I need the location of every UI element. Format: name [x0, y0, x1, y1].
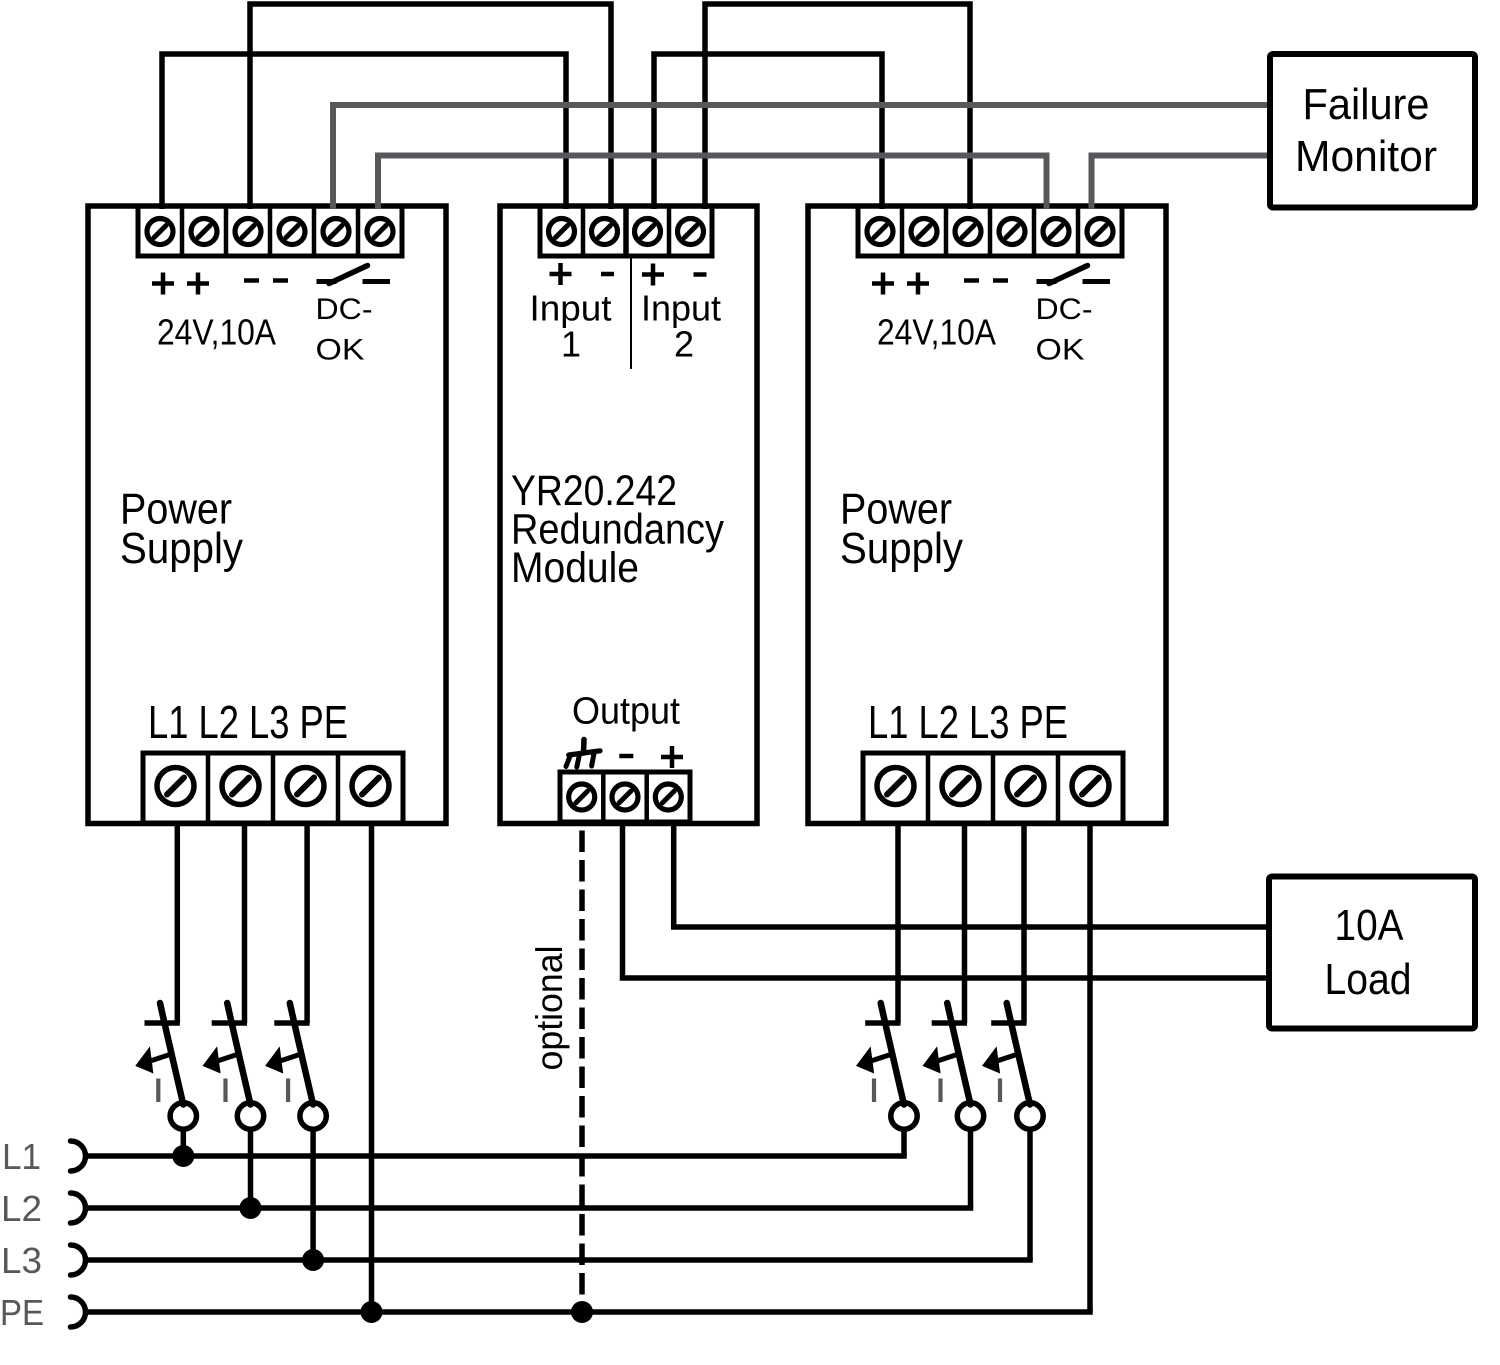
10A load label [1325, 901, 1412, 1004]
PS1 label + + [152, 273, 209, 295]
PS2 label - - [964, 278, 1008, 283]
U1 label output - + [619, 746, 683, 768]
PS1 top terminal screw 4 [279, 219, 305, 245]
PS1 bottom terminal screw 1 [157, 768, 194, 805]
U1 functional earth symbol [566, 740, 600, 768]
PS2 top terminal block [858, 206, 1122, 256]
wire PS1 L3 drop [304, 823, 310, 1023]
PS2 top terminal screw 3 [955, 219, 981, 245]
wire PS2 L2 drop [962, 823, 968, 1023]
PS2 top terminal screw 1 [867, 219, 893, 245]
svg-text:L1 L2 L3 PE: L1 L2 L3 PE [148, 696, 348, 748]
U1 output terminal screw 3 [655, 784, 681, 810]
PS1 PE junction dot [361, 1301, 383, 1323]
svg-text:L1: L1 [2, 1136, 41, 1177]
wire PS1- to U1 input1- [250, 4, 611, 209]
wire PS1 DC-OK to failure monitor [333, 105, 1267, 209]
PS2 top terminal screw 4 [999, 219, 1025, 245]
wire PS1 DC-OK to PS2 DC-OK [378, 156, 1047, 210]
PS1 top terminal block [138, 206, 402, 256]
L3 bus entry arc [71, 1245, 86, 1275]
circuit breaker Q1 (PS1 L1) junction dot [172, 1145, 194, 1167]
optional earth junction dot [571, 1301, 593, 1323]
wire PS2 L3 drop [1021, 823, 1027, 1023]
circuit breaker Q2 (PS1 L2) junction dot [240, 1197, 262, 1219]
wire PS2 PE drop [1087, 823, 1093, 1312]
U1 label input1 + - [550, 263, 615, 285]
circuit breaker Q5 (PS2 L2) [923, 1003, 984, 1208]
wire U1 input2- to PS2- [705, 4, 970, 209]
PS2 bottom terminal screw 1 [877, 768, 914, 805]
PS2 bottom terminal screw 3 [1007, 768, 1044, 805]
wire PS1 L1 drop [175, 823, 181, 1023]
PS2 label Power Supply [840, 485, 963, 574]
PE bus entry arc [71, 1297, 86, 1327]
PS1 top terminal screw 6 [367, 219, 393, 245]
circuit breaker Q3 (PS1 L3) junction dot [302, 1249, 324, 1271]
PS2 top terminal screw 6 [1087, 219, 1113, 245]
svg-text:24V,10A: 24V,10A [157, 312, 276, 353]
svg-text:optional: optional [529, 946, 570, 1071]
optional earth wire (dashed) [579, 831, 585, 1313]
PS2 bottom terminal screw 2 [942, 768, 979, 805]
wire PS2 L1 drop [895, 823, 901, 1023]
svg-text:Output: Output [572, 691, 680, 733]
U1 input divider line [630, 256, 632, 369]
PS2 top terminal screw 2 [911, 219, 937, 245]
wire U1 input2+ to PS2+ [654, 54, 882, 209]
redundancy module U1 box [500, 206, 757, 824]
circuit breaker Q3 (PS1 L3) [265, 1003, 326, 1260]
wire U1 output- to load [623, 822, 1267, 978]
wire PS2 DC-OK to failure monitor [1092, 156, 1268, 210]
PS2 top terminal screw 5 [1043, 219, 1069, 245]
PS2 bottom terminal screw 4 [1072, 768, 1109, 805]
PS1 bottom terminal block [143, 753, 403, 823]
PS1 label Power Supply [120, 485, 243, 574]
U1 label Input 1 [530, 288, 612, 365]
PS1 label DC-OK [316, 293, 373, 367]
PS1 top terminal screw 2 [191, 219, 217, 245]
PS2 bottom terminal block [863, 753, 1123, 823]
circuit breaker Q1 (PS1 L1) [135, 1003, 196, 1156]
svg-text:DC-: DC- [1036, 293, 1093, 326]
svg-text:Failure: Failure [1303, 80, 1430, 129]
PE bus line [86, 1309, 1093, 1315]
PS1 bottom terminal screw 4 [352, 768, 389, 805]
U1 label Input 2 [641, 288, 721, 365]
U1 input terminal screw 2 [592, 219, 618, 245]
power supply PS2 box [808, 206, 1166, 824]
svg-text:L2: L2 [1, 1188, 42, 1229]
U1 output terminal screw 2 [612, 784, 638, 810]
L2 bus entry arc [71, 1193, 86, 1223]
svg-text:1: 1 [561, 323, 581, 364]
PS1 bottom terminal screw 3 [287, 768, 324, 805]
svg-text:OK: OK [1036, 334, 1085, 367]
L1 bus entry arc [71, 1141, 86, 1171]
PS2 label DC-OK [1036, 293, 1093, 367]
circuit breaker Q6 (PS2 L3) [982, 1003, 1043, 1260]
U1 input terminal screw 3 [635, 219, 661, 245]
circuit breaker Q2 (PS1 L2) [203, 1003, 264, 1208]
svg-text:Load: Load [1325, 955, 1412, 1004]
PS1 top terminal screw 5 [323, 219, 349, 245]
wire PS1 L2 drop [242, 823, 248, 1023]
svg-text:DC-: DC- [316, 293, 373, 326]
U1 label input2 + - [642, 264, 707, 286]
failure monitor label [1295, 80, 1437, 181]
svg-text:L1 L2 L3 PE: L1 L2 L3 PE [868, 696, 1068, 748]
PS2 label + + [872, 273, 929, 295]
wire PS1 PE drop [369, 823, 375, 1312]
svg-text:L3: L3 [1, 1240, 42, 1281]
U1 input terminal block [540, 206, 712, 256]
circuit breaker Q4 (PS2 L1) [856, 1003, 917, 1156]
PS1 label - - [244, 278, 288, 283]
svg-text:2: 2 [674, 323, 694, 364]
L3 bus line [86, 1257, 1033, 1263]
U1 label YR20.242 Redundancy Module [511, 467, 724, 592]
svg-text:Module: Module [511, 544, 639, 592]
PS2 DC-OK relay contact symbol [1037, 266, 1111, 284]
power supply PS1 box [88, 206, 446, 824]
svg-text:10A: 10A [1335, 901, 1405, 950]
svg-text:OK: OK [316, 334, 365, 367]
svg-text:Supply: Supply [840, 524, 963, 573]
L1 bus line [86, 1153, 907, 1159]
U1 input terminal screw 4 [678, 219, 704, 245]
U1 output terminal block [560, 772, 690, 822]
U1 output terminal screw 1 [569, 784, 595, 810]
wire PS1+ to U1 input1+ [162, 54, 566, 209]
PS1 top terminal screw 1 [147, 219, 173, 245]
svg-text:Monitor: Monitor [1295, 132, 1437, 181]
svg-text:Supply: Supply [120, 524, 243, 573]
PS1 bottom terminal screw 2 [222, 768, 259, 805]
PS1 top terminal screw 3 [235, 219, 261, 245]
10A load box [1269, 877, 1475, 1029]
U1 input terminal screw 1 [549, 219, 575, 245]
svg-text:PE: PE [0, 1292, 44, 1333]
L2 bus line [86, 1205, 973, 1211]
PS1 DC-OK relay contact symbol [317, 266, 391, 284]
wire U1 output+ to load [674, 822, 1266, 927]
failure monitor box [1270, 54, 1475, 208]
svg-text:24V,10A: 24V,10A [877, 312, 996, 353]
